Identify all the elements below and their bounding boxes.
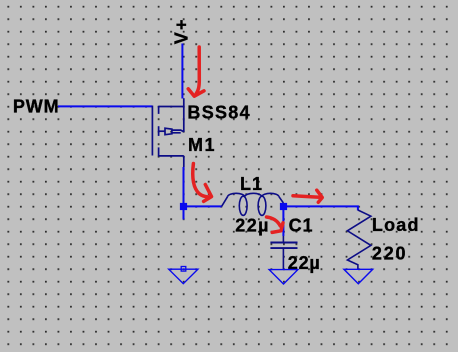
wire drain to node <box>183 167 185 204</box>
wire stub below node (dangling) <box>183 210 185 220</box>
drain lead bottom <box>159 155 184 157</box>
svg-text:M1: M1 <box>188 135 216 155</box>
svg-text:V+: V+ <box>171 17 191 44</box>
bulk arrow head <box>165 128 172 135</box>
source lead top <box>159 106 184 108</box>
annotation arrow 4 (current into C1, curved down) <box>267 217 284 232</box>
ground under C1 <box>269 270 298 284</box>
svg-text:220: 220 <box>372 244 407 264</box>
inductor L1 coil <box>222 193 284 215</box>
wire node to capacitor <box>282 210 284 236</box>
ground symbol (floating, with unconnected-pin square) <box>169 267 198 284</box>
node junction right (square) <box>280 203 287 210</box>
svg-text:PWM: PWM <box>13 97 60 117</box>
node junction left (square) <box>180 203 187 210</box>
wire V+ to source <box>181 44 183 99</box>
channel segment bottom <box>158 147 160 156</box>
gate bar <box>151 106 153 156</box>
ground under Load <box>344 269 373 283</box>
wire node to load <box>287 206 358 210</box>
svg-text:Load: Load <box>372 215 420 235</box>
channel segment top <box>158 106 160 114</box>
svg-text:22µ: 22µ <box>235 216 270 236</box>
svg-text:C1: C1 <box>289 216 314 236</box>
svg-text:L1: L1 <box>240 174 263 194</box>
capacitor C1 <box>270 236 297 269</box>
bulk arrow stub <box>159 130 165 132</box>
transistor M1 (PMOS BSS84) <box>152 98 183 167</box>
annotation arrow 2 (drain current into node) <box>193 164 212 202</box>
annotation arrow 3 (current to load, rightward) <box>293 190 322 202</box>
annotation arrow 1 (current from V+ down) <box>188 47 204 96</box>
drain pin stub <box>183 156 185 168</box>
svg-text:BSS84: BSS84 <box>187 102 251 122</box>
wire node to inductor <box>184 205 222 207</box>
resistor Load (zigzag) <box>347 210 371 269</box>
wire PWM to gate <box>58 105 153 107</box>
bulk arrow shaft <box>172 130 184 133</box>
source pin vertical <box>183 98 185 132</box>
channel segment middle <box>158 126 160 136</box>
